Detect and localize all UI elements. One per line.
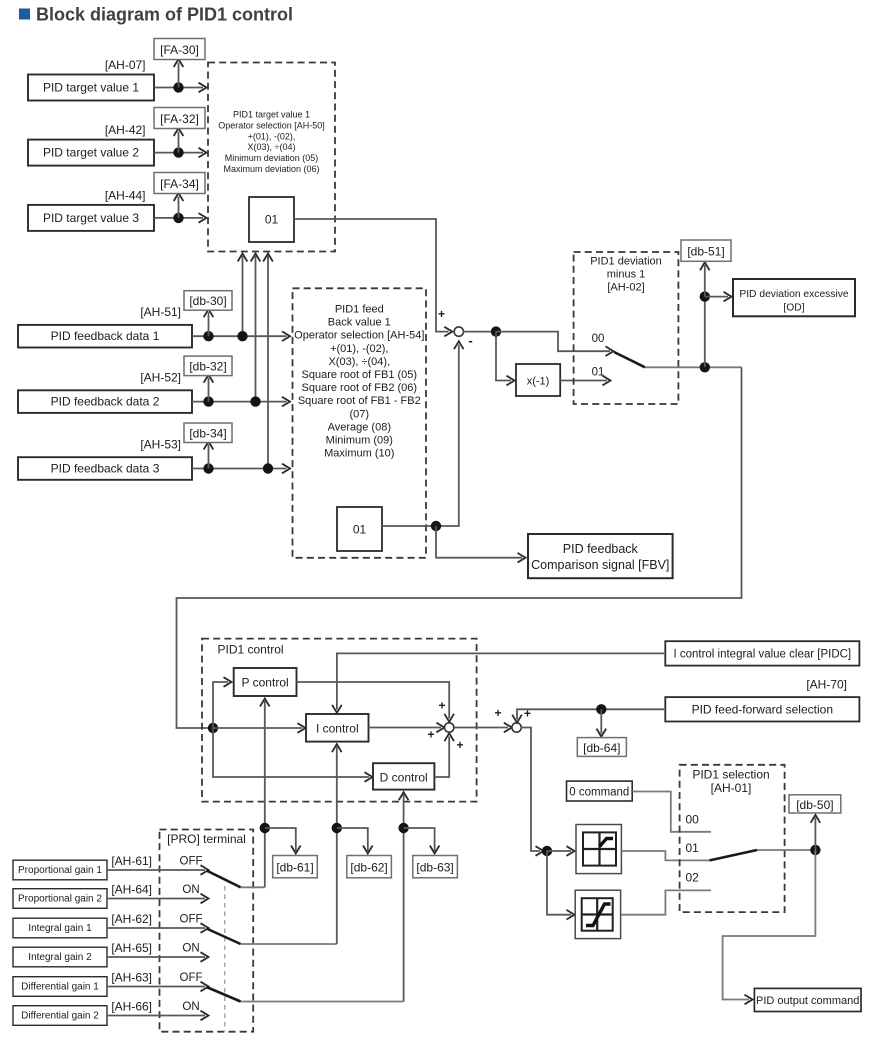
svg-text:(07): (07): [350, 408, 370, 420]
wire Integral gain 2 to switch contact: [107, 956, 205, 958]
wire Differential gain 1 to switch contact: [107, 986, 205, 988]
junction node PID output: [810, 845, 820, 855]
wire proportional switch common: [241, 886, 265, 888]
wire switch common to junction: [645, 366, 742, 368]
wire to P control: [213, 682, 228, 728]
block PID output command: [754, 988, 861, 1011]
wire gain rail up into control block ([db-63]): [403, 795, 405, 1002]
junction node to [db-32]: [203, 396, 213, 406]
wire deviation to x(-1): [496, 332, 511, 381]
svg-text:[AH-07]: [AH-07]: [105, 58, 146, 72]
wire gain rail up into control block ([db-61]): [264, 701, 266, 887]
svg-text:P control: P control: [242, 676, 289, 690]
svg-text:00: 00: [686, 813, 700, 827]
svg-text:PID target value 1: PID target value 1: [43, 81, 139, 95]
svg-text:[FA-34]: [FA-34]: [160, 177, 199, 191]
junction node to [db-34]: [203, 463, 213, 473]
junction node feed-forward tap: [596, 704, 606, 714]
svg-text:PID deviation excessive: PID deviation excessive: [739, 289, 849, 300]
wire x(-1) output to switch contact 01: [560, 380, 607, 382]
wire PID output route to PID output command: [723, 850, 816, 1000]
dashed block PID1 deviation minus 1 [AH-02]: [574, 252, 679, 404]
svg-text:[AH-65]: [AH-65]: [111, 941, 152, 955]
svg-text:0 command: 0 command: [569, 787, 629, 799]
svg-text:I control integral value clear: I control integral value clear [PIDC]: [673, 649, 851, 661]
svg-text:[db-51]: [db-51]: [687, 245, 724, 259]
wire PID target value 1 output: [154, 87, 203, 89]
svg-text:Back value 1: Back value 1: [328, 317, 391, 329]
svg-text:01: 01: [265, 213, 279, 227]
block 01 selector (target): [249, 197, 294, 242]
wire PID feedback data 3 output: [192, 468, 287, 470]
wire to D control: [213, 728, 369, 777]
svg-text:[db-62]: [db-62]: [350, 861, 387, 875]
svg-text:x(-1): x(-1): [527, 376, 550, 388]
svg-text:[db-63]: [db-63]: [416, 861, 453, 875]
junction node PID input rail: [208, 723, 218, 733]
svg-text:Differential gain 2: Differential gain 2: [21, 1011, 99, 1022]
svg-text:+: +: [438, 307, 445, 321]
block PID feedback comparison signal [FBV]: [528, 534, 673, 578]
block PID deviation excessive [OD]: [733, 279, 855, 316]
wire up to [db-32]: [208, 378, 210, 402]
svg-text:00: 00: [592, 333, 605, 345]
wire to I control: [213, 727, 302, 729]
register box [db-62]: [347, 856, 392, 878]
block I control integral value clear [PIDC]: [665, 641, 859, 665]
wire arrow to [db-64]: [600, 709, 602, 733]
svg-text:[AH-02]: [AH-02]: [607, 282, 644, 294]
junction node after deviation sum: [491, 326, 501, 336]
svg-text:Square root of FB1 - FB2: Square root of FB1 - FB2: [298, 395, 421, 407]
junction node feedback tap 1: [237, 331, 247, 341]
junction node deviation output: [700, 362, 710, 372]
svg-text:Operator selection [AH-54]: Operator selection [AH-54]: [294, 330, 424, 342]
junction node gain rail [db-63]: [398, 823, 408, 833]
wire up to [db-34]: [208, 445, 210, 469]
svg-text:Proportional gain 1: Proportional gain 1: [18, 865, 102, 876]
wire to PID deviation excessive: [705, 296, 728, 298]
block I control: [306, 714, 369, 742]
svg-text:02: 02: [686, 871, 700, 885]
wire arrow into [db-51]: [704, 265, 706, 297]
svg-text:X(03), ÷(04): X(03), ÷(04): [248, 142, 296, 152]
block limiter 1 (upper clamp): [576, 825, 621, 874]
junction node feedback tap 3: [263, 463, 273, 473]
svg-text:-: -: [468, 333, 472, 348]
svg-text:+: +: [427, 728, 434, 742]
wire deviation to switch contact 00: [496, 332, 610, 352]
dashed block [PRO] terminal: [160, 830, 254, 1032]
wire arrow to [db-61]: [265, 828, 296, 851]
wire arrow to [db-62]: [337, 828, 368, 851]
switch deviation polarity: [614, 352, 645, 367]
svg-text:[db-34]: [db-34]: [189, 427, 226, 441]
wire integral switch common: [241, 943, 337, 945]
block PID feed-forward selection: [665, 697, 859, 721]
wire 0 command to contact 00: [632, 792, 711, 832]
svg-text:OFF: OFF: [180, 856, 203, 868]
register box [db-51]: [681, 240, 731, 261]
junction node to [db-30]: [203, 331, 213, 341]
switch integral gain select: [207, 929, 241, 945]
wire PID sum to feed-forward sum: [454, 727, 508, 729]
svg-text:Integral gain 2: Integral gain 2: [28, 952, 92, 963]
register box [db-34]: [184, 423, 232, 443]
dashed block PID1 target operator selection [AH-50]: [208, 63, 335, 252]
svg-text:PID target value 2: PID target value 2: [43, 146, 139, 160]
register box [FA-32]: [154, 108, 205, 129]
wire D control output to PID sum: [434, 737, 449, 778]
wire up to [FA-32]: [178, 132, 180, 153]
svg-text:PID feedback data 1: PID feedback data 1: [51, 329, 160, 343]
block PID feedback data 3: [18, 457, 192, 480]
svg-text:[AH-52]: [AH-52]: [140, 371, 181, 385]
svg-text:+: +: [456, 738, 463, 752]
wire limiter 2 output to contact 02: [621, 890, 711, 914]
svg-text:Integral gain 1: Integral gain 1: [28, 923, 92, 934]
junction node row2: [173, 147, 183, 157]
register box [db-50]: [789, 795, 841, 813]
block Differential gain 2: [13, 1006, 107, 1026]
wire to FBV block: [436, 526, 522, 558]
svg-text:Average (08): Average (08): [328, 421, 391, 433]
svg-text:[FA-32]: [FA-32]: [160, 112, 199, 126]
block PID target value 2: [28, 140, 154, 166]
wire to limiter 2: [547, 851, 571, 915]
summing junction PID: [445, 723, 454, 732]
svg-text:PID feed-forward selection: PID feed-forward selection: [692, 703, 833, 717]
block x(-1): [516, 364, 560, 396]
junction node row3: [173, 213, 183, 223]
svg-text:[AH-51]: [AH-51]: [140, 305, 181, 319]
svg-text:Comparison signal [FBV]: Comparison signal [FBV]: [531, 558, 669, 572]
svg-text:[AH-64]: [AH-64]: [111, 883, 152, 897]
wire up to [FA-30]: [178, 63, 180, 88]
switch differential gain select: [207, 987, 241, 1002]
svg-text:ON: ON: [182, 884, 199, 896]
svg-text:ON: ON: [182, 1001, 199, 1013]
svg-text:+: +: [438, 699, 445, 713]
svg-text:[FA-30]: [FA-30]: [160, 43, 199, 57]
dashed block PID1 control: [202, 639, 477, 802]
svg-text:[AH-42]: [AH-42]: [105, 123, 146, 137]
register box [db-61]: [273, 856, 318, 878]
wire deviation output long route to PID1 control input: [177, 367, 742, 728]
wire feed-forward sum output to limiters: [521, 728, 540, 852]
register box [db-32]: [184, 356, 232, 376]
register box [db-30]: [184, 291, 232, 311]
svg-text:[AH-61]: [AH-61]: [111, 854, 152, 868]
switch PID1 selection: [710, 850, 757, 860]
title square bullet: [19, 9, 30, 20]
wire arrow up to [db-50]: [814, 818, 816, 851]
wire PID feedback data 1 output: [192, 335, 287, 337]
svg-text:PID feedback data 3: PID feedback data 3: [51, 462, 160, 476]
wire gain rail up into control block ([db-62]): [336, 747, 338, 944]
block PID target value 3: [28, 205, 154, 231]
svg-text:PID1 selection: PID1 selection: [692, 768, 769, 782]
block limiter 2 (bipolar clamp): [575, 890, 620, 938]
block 0 command: [567, 781, 633, 801]
switch proportional gain select: [207, 871, 241, 888]
wire 01 selector output to deviation summing node: [294, 219, 449, 332]
svg-text:01: 01: [353, 523, 367, 537]
wire to limiter 1: [547, 850, 571, 852]
wire PID target value 3 output: [154, 217, 203, 219]
svg-text:Square root of FB1 (05): Square root of FB1 (05): [302, 369, 418, 381]
svg-text:[AH-70]: [AH-70]: [806, 678, 847, 692]
dashed block PID1 selection [AH-01]: [680, 765, 785, 912]
dashed block PID1 feedback operator selection [AH-54]: [293, 288, 427, 558]
svg-text:PID feedback: PID feedback: [563, 542, 639, 556]
svg-text:[db-61]: [db-61]: [276, 861, 313, 875]
register box [db-63]: [413, 856, 458, 878]
svg-text:PID1 target value 1: PID1 target value 1: [233, 110, 310, 120]
svg-text:[AH-01]: [AH-01]: [711, 781, 752, 795]
svg-text:D control: D control: [380, 771, 428, 785]
svg-text:[AH-53]: [AH-53]: [140, 438, 181, 452]
wire up to [db-51] tap: [704, 297, 706, 368]
wire I control output to PID sum: [369, 727, 442, 729]
block 01 selector (feedback): [337, 507, 382, 551]
svg-text:+: +: [494, 706, 501, 720]
svg-text:[db-64]: [db-64]: [583, 741, 620, 755]
register box [FA-34]: [154, 173, 205, 194]
wire up to [FA-34]: [178, 197, 180, 218]
block PID feedback data 1: [18, 325, 192, 348]
svg-text:OFF: OFF: [180, 914, 203, 926]
svg-text:Maximum deviation (06): Maximum deviation (06): [223, 164, 319, 174]
wire PID feedback data 2 output: [192, 401, 287, 403]
svg-text:+: +: [524, 707, 531, 721]
wire feed-forward to sum: [517, 709, 665, 719]
block D control: [373, 763, 434, 789]
svg-text:[db-32]: [db-32]: [189, 360, 226, 374]
svg-text:PID1 deviation: PID1 deviation: [590, 256, 662, 268]
wires up into operator box 1 from feedback taps: [242, 256, 244, 336]
block Proportional gain 2: [13, 889, 107, 909]
svg-text:[AH-62]: [AH-62]: [111, 912, 152, 926]
block Proportional gain 1: [13, 860, 107, 880]
svg-text:01: 01: [686, 841, 700, 855]
register box [FA-30]: [154, 39, 205, 60]
wire arrow to [db-63]: [404, 828, 435, 851]
wire Proportional gain 2 to switch contact: [107, 898, 205, 900]
inner dashed divider: [224, 886, 226, 1032]
svg-text:[db-30]: [db-30]: [189, 294, 226, 308]
svg-text:[AH-44]: [AH-44]: [105, 188, 146, 202]
svg-text:[db-50]: [db-50]: [796, 798, 833, 812]
svg-text:minus 1: minus 1: [607, 269, 646, 281]
svg-text:Differential gain 1: Differential gain 1: [21, 982, 99, 993]
block Integral gain 1: [13, 918, 107, 938]
svg-text:PID1 feed: PID1 feed: [335, 304, 384, 316]
wire differential switch common: [241, 1001, 404, 1003]
junction node feedback tap 2: [250, 396, 260, 406]
svg-text:[OD]: [OD]: [783, 303, 804, 314]
block PID feedback data 2: [18, 390, 192, 413]
summing junction deviation: [454, 327, 463, 336]
wire P control output to PID sum: [297, 682, 450, 719]
svg-text:PID1 control: PID1 control: [218, 643, 284, 657]
register box [db-64]: [577, 738, 626, 757]
svg-text:Minimum deviation (05): Minimum deviation (05): [225, 153, 319, 163]
svg-text:Maximum (10): Maximum (10): [324, 448, 394, 460]
block PID target value 1: [28, 75, 154, 101]
svg-text:Square root of FB2 (06): Square root of FB2 (06): [302, 382, 418, 394]
wire Integral gain 1 to switch contact: [107, 927, 205, 929]
wire Proportional gain 1 to switch contact: [107, 869, 205, 871]
junction node limiter input: [542, 846, 552, 856]
svg-text:X(03), ÷(04),: X(03), ÷(04),: [328, 356, 390, 368]
junction node db-51 tap: [700, 291, 710, 301]
svg-text:[AH-66]: [AH-66]: [111, 1000, 152, 1014]
svg-text:Operator selection [AH-50]: Operator selection [AH-50]: [218, 120, 325, 130]
wire selection switch common: [757, 849, 815, 851]
svg-text:+(01), -(02),: +(01), -(02),: [330, 343, 388, 355]
block Integral gain 2: [13, 947, 107, 967]
svg-text:ON: ON: [182, 943, 199, 955]
svg-text:PID target value 3: PID target value 3: [43, 211, 139, 225]
svg-text:Minimum (09): Minimum (09): [326, 435, 393, 447]
svg-text:[AH-63]: [AH-63]: [111, 971, 152, 985]
junction node row1: [173, 82, 183, 92]
block P control: [234, 668, 297, 696]
junction node FBV tap: [431, 521, 441, 531]
svg-text:Proportional gain 2: Proportional gain 2: [18, 894, 102, 905]
svg-text:+(01), -(02),: +(01), -(02),: [248, 131, 296, 141]
block Differential gain 1: [13, 977, 107, 997]
svg-text:[PRO] terminal: [PRO] terminal: [167, 832, 246, 846]
wire up to [db-30]: [208, 312, 210, 336]
svg-text:Block diagram of PID1 control: Block diagram of PID1 control: [36, 5, 293, 25]
junction node gain rail [db-62]: [332, 823, 342, 833]
summing junction feed-forward: [512, 723, 521, 732]
wire feedback selector output to deviation sum minus input: [382, 345, 459, 527]
wire limiter 1 output to contact 01: [621, 851, 711, 860]
svg-text:OFF: OFF: [180, 972, 203, 984]
wire PIDC to I control top: [337, 653, 665, 709]
svg-text:I control: I control: [316, 722, 359, 736]
svg-text:PID feedback data 2: PID feedback data 2: [51, 395, 160, 409]
wire PID target value 2 output: [154, 152, 203, 154]
svg-text:PID output command: PID output command: [756, 995, 859, 1007]
wire Differential gain 2 to switch contact: [107, 1015, 205, 1017]
junction node gain rail [db-61]: [260, 823, 270, 833]
svg-text:01: 01: [592, 367, 605, 379]
